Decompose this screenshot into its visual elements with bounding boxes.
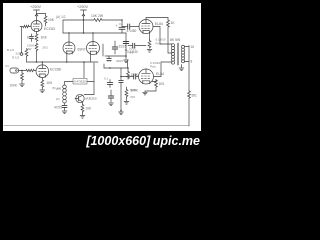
wire supply1 to V1 plate [36, 16, 38, 21]
svg-text:0.1: 0.1 [107, 59, 112, 63]
junction dot jack node [21, 70, 23, 72]
svg-text:22/25: 22/25 [119, 45, 127, 49]
svg-text:6SN7: 6SN7 [78, 48, 86, 52]
output transformer T1 primary winding [171, 44, 174, 65]
resistor R14 grid leak [21, 71, 23, 73]
wire rail4 [104, 67, 128, 69]
pentode V5 output tube [139, 69, 154, 84]
wire node D vertical [125, 33, 127, 59]
right black border [201, 0, 204, 154]
svg-text:220K: 220K [16, 52, 23, 56]
wire speaker line to bottom [188, 99, 190, 126]
capacitor C14 on node D [123, 42, 129, 44]
wire V1b plate up [41, 62, 43, 65]
wire rail1 to rail2 interconnect [83, 20, 85, 33]
svg-text:1K: 1K [171, 21, 176, 25]
junction dot cathode bus [83, 61, 85, 63]
wire R14 to ground [21, 81, 23, 84]
output transformer T1 core [177, 43, 178, 65]
svg-text:476: 476 [130, 95, 135, 99]
resistor R10 V5 cathode [155, 80, 158, 88]
wire C16 tail down [120, 86, 122, 112]
ground under R14 [20, 84, 25, 87]
junction dot C16 tail [120, 110, 122, 112]
electrolytic C4 22/25 [112, 41, 117, 54]
svg-text:100K: 100K [131, 73, 139, 77]
wire rail1 right segment [103, 19, 122, 21]
input jack J1 [10, 68, 26, 73]
wire R12 down [126, 97, 128, 101]
resistor R1 grid stopper V1 [20, 25, 29, 27]
resistor R18 [81, 104, 84, 112]
svg-text:ECC83: ECC83 [44, 27, 55, 31]
wire bus down to bias network [83, 62, 85, 78]
capacitor C9 0.1 [107, 80, 112, 88]
svg-text:MJE350: MJE350 [86, 97, 97, 101]
wire V5 cathode to R10 [152, 80, 156, 82]
svg-text:400V: 400V [116, 59, 123, 63]
svg-text:EL84: EL84 [155, 22, 163, 26]
wire secondary bottom tap [185, 61, 190, 63]
svg-text:1K5: 1K5 [47, 81, 53, 85]
wire box to bias feed [87, 81, 94, 83]
wire chain to plate node [36, 51, 38, 62]
ground under C13 [62, 111, 67, 114]
ground under R18 [80, 116, 85, 119]
resistor R11 100K on rail4 [127, 68, 129, 71]
node B+ supply 2 terminal [81, 10, 87, 16]
wire R15 bottom to rail [26, 57, 28, 62]
wire rail1 left segment [63, 20, 93, 33]
junction dot rail1 at supply2 [83, 19, 85, 21]
pentode V4 output tube [139, 20, 153, 34]
svg-text:B 1/2: B 1/2 [7, 48, 14, 52]
terminal node to other channel [20, 53, 23, 56]
resistor R3b lower chain [35, 43, 38, 51]
wire cathode bus [67, 61, 98, 63]
junction dot rail4 x128 [127, 67, 129, 69]
svg-text:R 1/2: R 1/2 [12, 56, 20, 60]
resistor R17 cathode V1b [41, 80, 44, 88]
svg-text:+: + [116, 24, 118, 28]
top black border [0, 0, 204, 3]
ground under R8 [147, 50, 152, 53]
svg-text:47/450: 47/450 [127, 29, 137, 33]
resistor R7 screen 1K [167, 20, 170, 28]
junction dot rail2 at x69 [68, 32, 70, 34]
svg-text:820: 820 [27, 36, 33, 40]
wire rail6 [27, 61, 67, 63]
coupling cap C5 to V4 grid [122, 24, 139, 29]
wire speaker return line [188, 46, 190, 91]
transistor Q1 [75, 94, 84, 102]
wire V3 plate up to rail2 [92, 33, 94, 42]
wire R17 to ground [41, 88, 43, 90]
resistor R13 grid stopper [26, 69, 36, 71]
wire V2 cathode to bus [66, 54, 68, 62]
svg-text:16: 16 [191, 45, 195, 49]
capacitor C13 [62, 105, 67, 110]
junction dot V2 cathode [66, 61, 68, 63]
svg-text:10K 2W: 10K 2W [91, 14, 104, 18]
box U1 label [73, 79, 87, 85]
triode V3 [87, 42, 100, 55]
wire rail4 left riser [103, 64, 105, 68]
wire Q1 collector [82, 102, 84, 104]
svg-text:ECC88: ECC88 [50, 68, 61, 72]
wire bias feed vertical [93, 63, 95, 95]
resistor R3 cathode V1 [35, 34, 38, 42]
svg-text:10K: 10K [86, 107, 93, 111]
triode V1b [36, 65, 49, 78]
svg-text:1K8: 1K8 [41, 36, 47, 40]
ground under C16 tail [119, 112, 124, 115]
svg-text:2W: 2W [27, 47, 32, 51]
resistor R2 10K (right of V1) [45, 14, 47, 16]
wire supply tee to R2 [37, 13, 46, 15]
triode V1 [31, 21, 42, 32]
wire R18 down [82, 112, 84, 115]
coupling cap C8 to V5 grid [121, 74, 139, 79]
triode V2 [63, 42, 75, 54]
resistor R8 V4 cathode [148, 40, 151, 48]
ground under R12 [124, 102, 129, 105]
capacitor C16 grid node [119, 77, 123, 86]
svg-text:561: 561 [192, 94, 198, 98]
wire V4 plate to transformer [153, 27, 172, 45]
junction dot node D2 [125, 55, 127, 57]
svg-text:1K5: 1K5 [159, 82, 165, 86]
svg-text:10K: 10K [48, 18, 55, 22]
electrolytic C10 [108, 90, 113, 102]
wire V5 plate to transformer bottom [154, 62, 173, 77]
svg-text:0.1: 0.1 [104, 77, 109, 81]
capacitor C15 drop [107, 56, 111, 60]
wire transformer bottom to ground [181, 65, 183, 68]
svg-text:EL84: EL84 [156, 72, 164, 76]
wire node E left vertical [102, 44, 104, 56]
wire rail4 to V5 grid riser [120, 68, 122, 77]
junction dot chain at rail6 [36, 61, 38, 63]
ground under transformer [179, 68, 184, 71]
junction dot rail4 at 110 [109, 67, 111, 69]
wire V2 plate up to rail2 [68, 33, 70, 42]
cell chain D1 small circles [63, 85, 67, 103]
resistor R9 feedback on speaker line [188, 91, 191, 99]
resistor R12 [126, 87, 128, 89]
ground under node D [124, 60, 129, 63]
wire secondary top to speaker line [185, 46, 190, 48]
wire R10 to ground [145, 88, 156, 92]
wire rail2 [63, 32, 126, 34]
wire V1b cathode down [41, 78, 43, 80]
junction dot rail1 at filter cap [121, 19, 123, 21]
svg-text:0.1: 0.1 [119, 22, 124, 26]
svg-text:2K2: 2K2 [43, 46, 49, 50]
wire V4 cathode [149, 34, 151, 41]
ground under V1b cathode [40, 90, 45, 93]
svg-text:47/25: 47/25 [54, 106, 62, 110]
wire R7 to transformer tap [168, 28, 172, 53]
wire bias feed to Q1 [84, 94, 94, 96]
wire chain top to box [65, 82, 74, 86]
wire V1 cathode down [36, 31, 38, 33]
junction dot rail2 at x84 [83, 32, 85, 34]
coupling caps C6 C7 small [128, 43, 146, 47]
wire node D tail to rail4 [127, 60, 129, 68]
svg-text:RV: RV [56, 97, 60, 101]
svg-text:0.1/630: 0.1/630 [127, 50, 138, 54]
wire chain bottom [64, 103, 66, 105]
svg-text:IN: IN [6, 64, 9, 68]
wire V3 cathode to bus [90, 54, 92, 62]
junction dot node D [125, 49, 127, 51]
wire node E horizontal [105, 55, 126, 57]
capacitor C1 bypass V1 cathode [30, 34, 34, 42]
ground under C10 [109, 103, 114, 106]
capacitor C2 filter 47/450 [119, 20, 125, 33]
schematic page frame bottom line [4, 125, 189, 127]
junction dot grid node [120, 76, 122, 78]
resistor R15 dropper [25, 49, 28, 57]
svg-text:+250V: +250V [77, 5, 89, 9]
svg-text:(A) 1/2: (A) 1/2 [56, 15, 66, 19]
svg-text:8K 5W: 8K 5W [170, 38, 181, 42]
svg-text:8: 8 [191, 60, 193, 64]
svg-text:+250V: +250V [30, 5, 42, 9]
resistor R4 10K 2W on rail1 [93, 19, 103, 22]
svg-text:Poly: Poly [150, 65, 156, 69]
svg-text:0.47/630: 0.47/630 [74, 80, 86, 84]
left black border [0, 0, 3, 154]
bottom caption bar [0, 131, 204, 154]
svg-text:100K: 100K [10, 84, 18, 88]
output transformer T1 secondary winding [181, 45, 184, 63]
wire supply2 drop to rail [83, 16, 85, 20]
svg-text:Poly: Poly [156, 42, 162, 46]
ground under V5 cathode [143, 92, 148, 95]
svg-text:100K: 100K [131, 89, 139, 93]
junction dot rail2 at x93 [92, 32, 94, 34]
svg-text:2K2: 2K2 [56, 87, 61, 91]
wire V1 grid to left [22, 27, 32, 53]
wire rail3 top right [146, 18, 168, 20]
junction dot rail6 at plate [42, 61, 44, 63]
node B+ supply 1 terminal [34, 10, 40, 16]
